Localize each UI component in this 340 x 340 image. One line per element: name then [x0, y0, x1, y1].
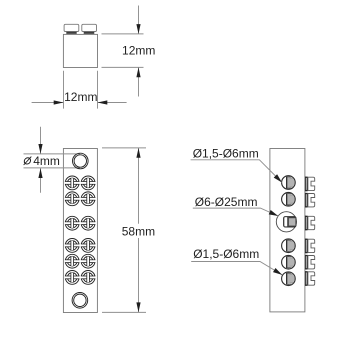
svg-text:12mm: 12mm: [122, 44, 155, 58]
svg-text:Ø1,5-Ø6mm: Ø1,5-Ø6mm: [193, 247, 259, 261]
svg-text:Ø1,5-Ø6mm: Ø1,5-Ø6mm: [193, 146, 259, 160]
svg-text:58mm: 58mm: [122, 224, 155, 238]
svg-text:Ø6-Ø25mm: Ø6-Ø25mm: [195, 195, 258, 209]
svg-text:4mm: 4mm: [33, 154, 60, 168]
svg-text:12mm: 12mm: [64, 90, 97, 104]
